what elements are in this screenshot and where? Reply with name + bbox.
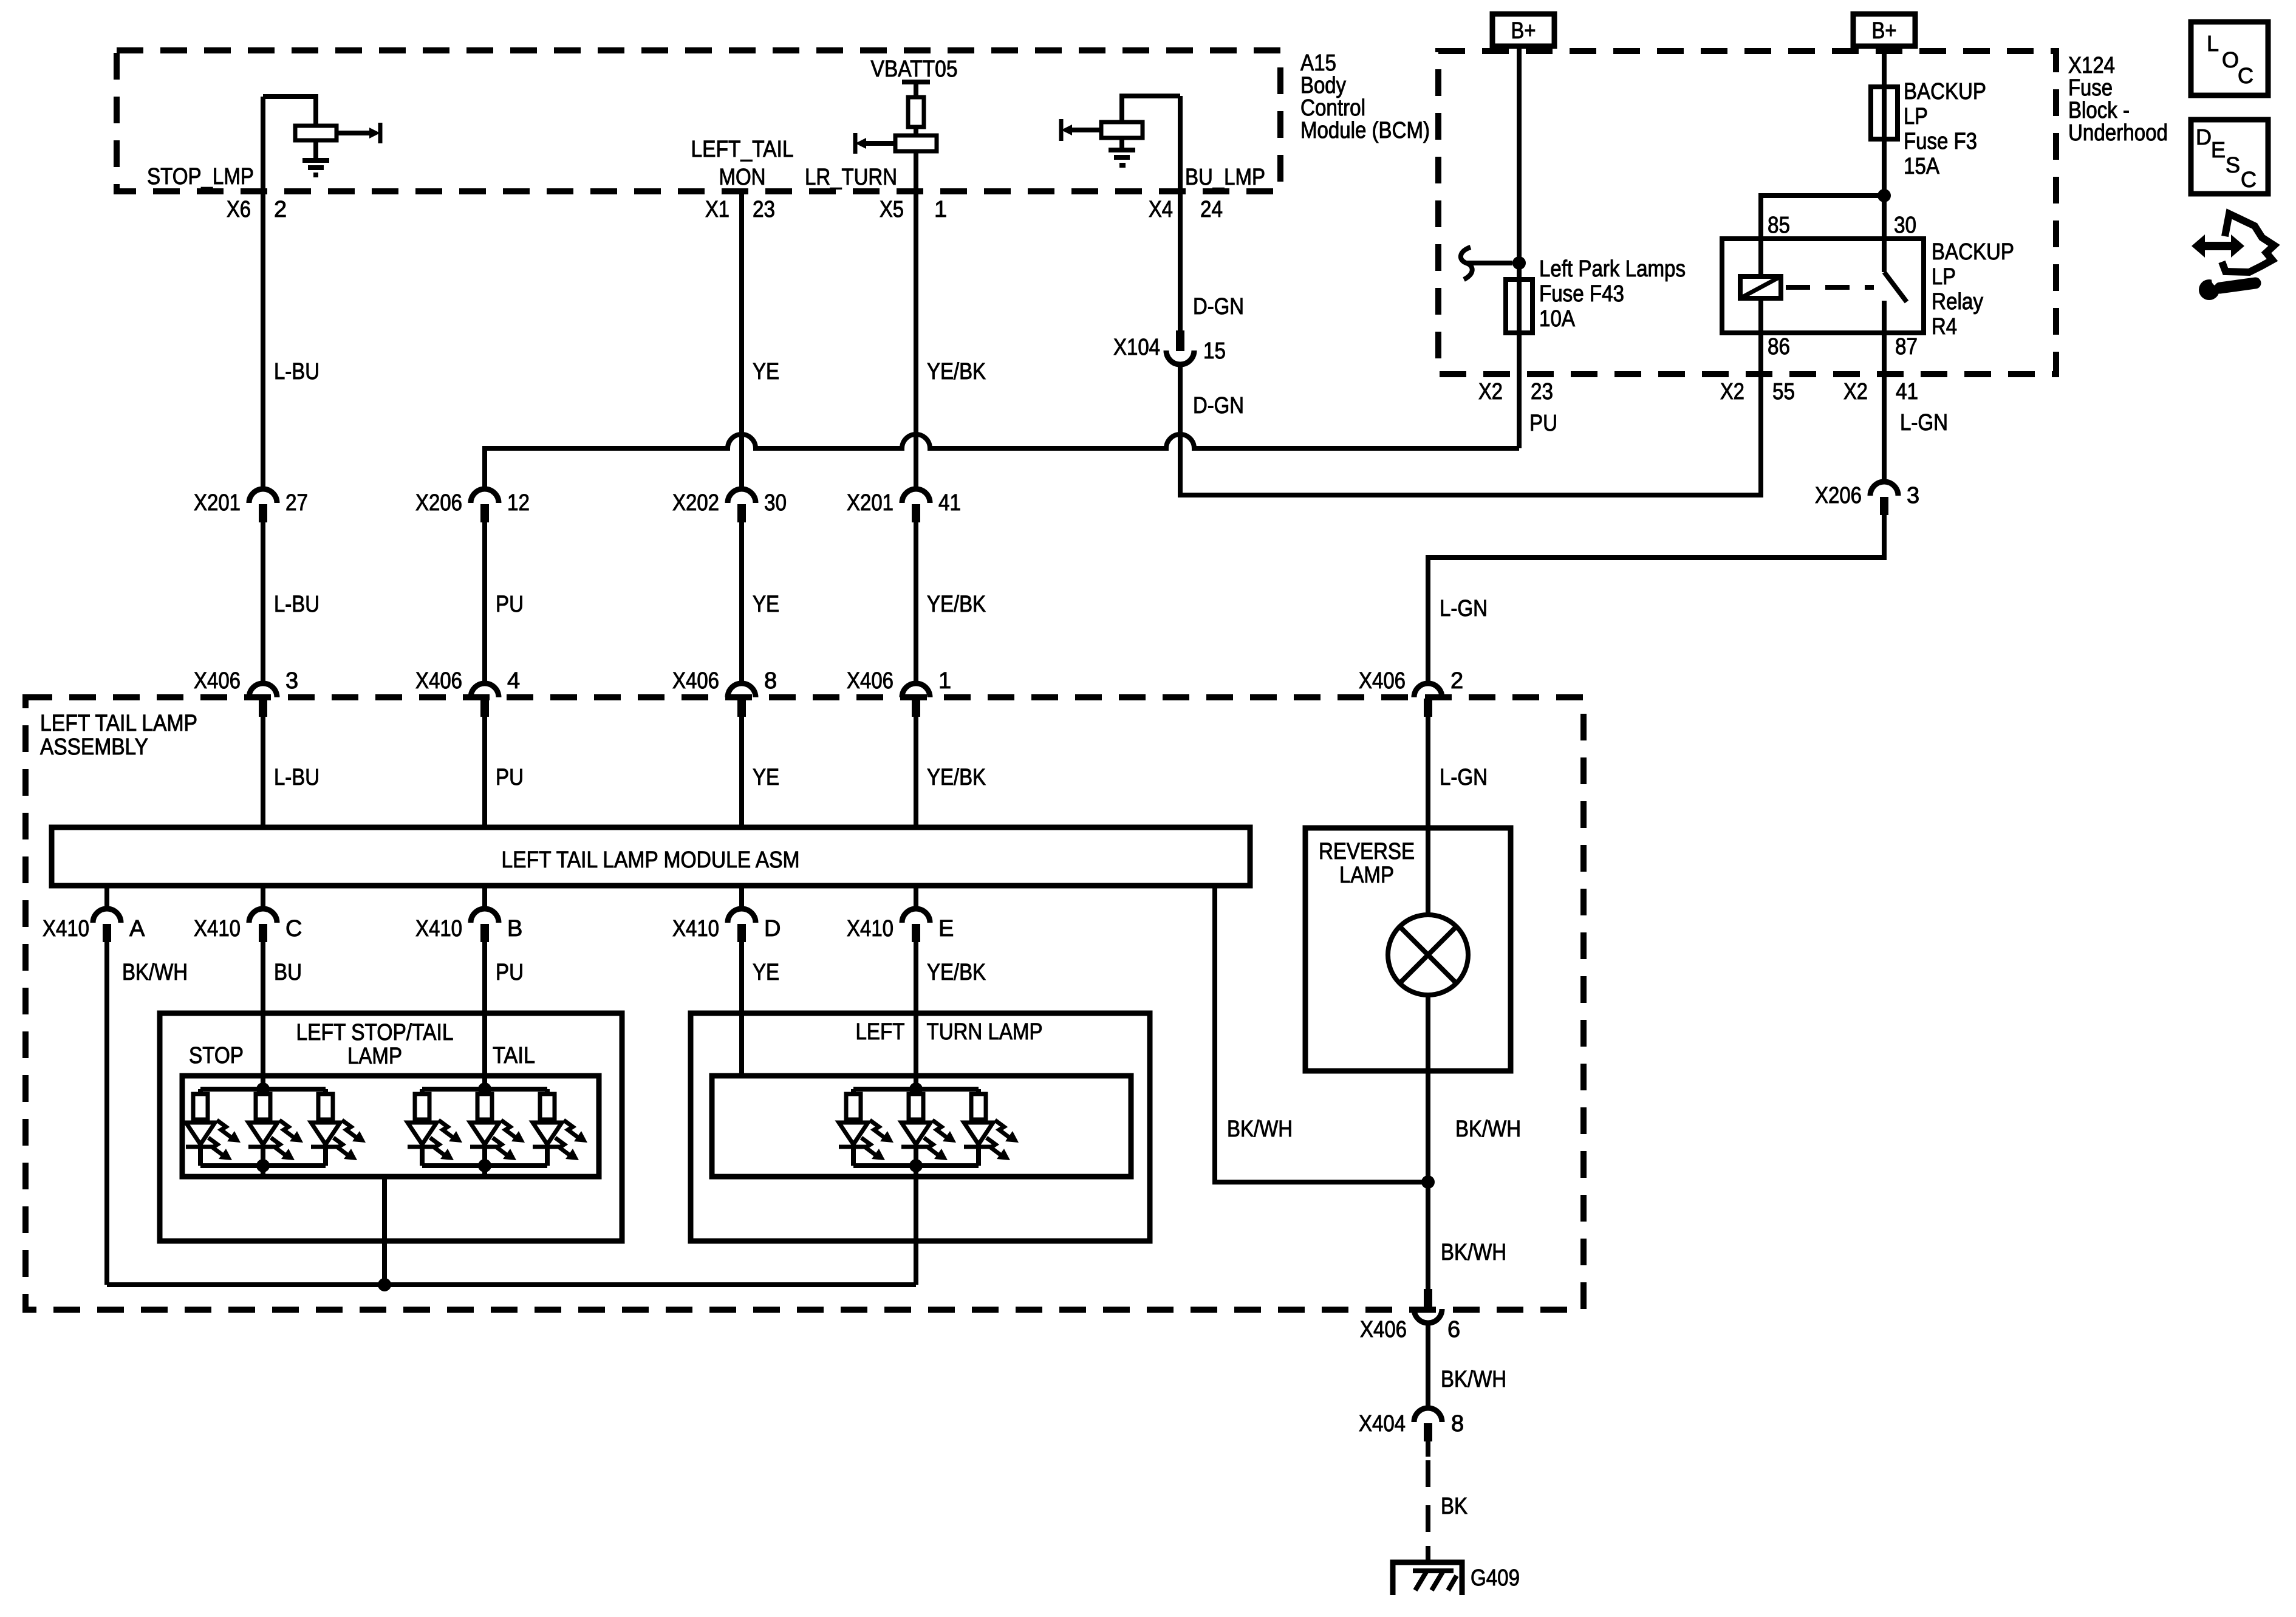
label PU 2: [496, 592, 524, 617]
svg-text:YE/BK: YE/BK: [927, 592, 986, 617]
connector X104 pin 15: [1113, 330, 1226, 364]
label D-GN 1: [1193, 294, 1244, 320]
wire fuse F3 to relay 30: [1882, 139, 1887, 239]
connector X206 pin 3: [1815, 482, 1919, 515]
svg-text:PU: PU: [496, 765, 524, 790]
svg-text:L-GN: L-GN: [1900, 410, 1948, 436]
connector X410 pin B: [415, 886, 522, 942]
label X2 pin 41: [1843, 379, 1918, 405]
label L-BU 1: [274, 359, 319, 385]
label PU 3: [496, 765, 524, 790]
wire LEFT_TAIL MON (YE column upper): [739, 191, 744, 489]
svg-text:L-BU: L-BU: [274, 765, 319, 790]
svg-text:X5: X5: [880, 197, 904, 222]
svg-text:10A: 10A: [1539, 306, 1576, 332]
svg-text:BK/WH: BK/WH: [1455, 1116, 1521, 1142]
svg-text:4: 4: [507, 668, 520, 694]
connector X410 pin E: [847, 886, 954, 942]
connector X206 pin 12: [415, 489, 530, 522]
svg-text:A: A: [129, 916, 145, 942]
svg-text:X406: X406: [1360, 1317, 1407, 1342]
label LEFT_TAIL MON: [691, 137, 794, 190]
svg-text:L-BU: L-BU: [274, 359, 319, 385]
svg-text:Module (BCM): Module (BCM): [1300, 118, 1430, 143]
svg-text:D: D: [764, 916, 781, 942]
svg-text:B: B: [507, 916, 522, 942]
label X6 pin 2: [227, 197, 287, 222]
svg-text:X406: X406: [415, 668, 462, 694]
DESC box: [2191, 120, 2268, 194]
junction node fuse F3 / relay 85: [1877, 189, 1891, 202]
relay coil-contact dashed link: [1786, 285, 1874, 290]
label BACKUP LP Relay R4: [1932, 239, 2014, 340]
wire BU from X410-C: [261, 942, 265, 1089]
label REVERSE LAMP: [1319, 839, 1415, 888]
wire YE/BK lower: [914, 717, 918, 830]
turn LED module inner box: [712, 1076, 1131, 1177]
svg-text:C: C: [2241, 167, 2257, 192]
label BACKUP LP Fuse F3 15A: [1904, 79, 1986, 179]
service icon (arrow and wrench): [2192, 214, 2274, 300]
VBATT05 supply bar: [902, 80, 930, 84]
fuse F43: [1506, 279, 1532, 333]
connector X404 pin 8: [1359, 1408, 1464, 1441]
label X4 pin 24: [1149, 197, 1223, 222]
wire PU lower: [482, 717, 487, 830]
wire PU from X410-B: [482, 942, 487, 1089]
label YE 4: [753, 960, 779, 985]
svg-text:85: 85: [1768, 213, 1790, 238]
svg-text:41: 41: [1896, 379, 1918, 405]
relay R4 box: [1722, 239, 1924, 333]
wire BK dashed to ground: [1426, 1460, 1430, 1562]
svg-text:Fuse F43: Fuse F43: [1539, 281, 1624, 307]
B+ terminal 2: [1853, 14, 1915, 46]
svg-text:X406: X406: [194, 668, 241, 694]
svg-text:BK/WH: BK/WH: [122, 960, 188, 985]
connector X406 pin 3: [194, 668, 298, 717]
svg-text:X202: X202: [672, 490, 719, 516]
wire turn lamp return: [914, 1166, 918, 1285]
label LEFT TURN LAMP: [856, 1019, 1043, 1045]
wire L-BU mid: [261, 522, 265, 683]
connector X410 pin D: [672, 886, 781, 942]
connector X406 pin 4: [415, 668, 520, 717]
svg-text:A15: A15: [1300, 50, 1336, 76]
svg-text:TAIL: TAIL: [493, 1043, 535, 1068]
label VBATT05: [871, 56, 958, 82]
svg-text:X1: X1: [705, 197, 729, 222]
svg-text:2: 2: [274, 197, 287, 222]
stop/tail bus stubs: [263, 1166, 485, 1177]
label L-GN 2: [1440, 596, 1488, 621]
svg-text:BACKUP: BACKUP: [1932, 239, 2014, 265]
svg-text:O: O: [2222, 47, 2239, 72]
svg-text:Left Park Lamps: Left Park Lamps: [1539, 256, 1686, 282]
svg-text:X406: X406: [672, 668, 719, 694]
BCM A15 dashed box: [117, 50, 1280, 191]
wire YE/BK mid: [914, 522, 918, 683]
svg-text:24: 24: [1200, 197, 1223, 222]
label YE 1: [753, 359, 779, 385]
reverse lamp bulb: [1388, 915, 1468, 995]
wire VBATT05 to fuse: [914, 84, 918, 97]
svg-text:X124: X124: [2068, 53, 2115, 78]
label YE/BK 2: [927, 592, 986, 617]
label X2 pin 55: [1720, 379, 1795, 405]
svg-text:STOP_LMP: STOP_LMP: [147, 164, 254, 190]
LEFT STOP/TAIL LAMP box: [160, 1013, 622, 1241]
svg-text:X410: X410: [672, 916, 719, 942]
wire L-BU lower: [261, 717, 265, 830]
svg-text:YE: YE: [753, 765, 779, 790]
svg-text:15: 15: [1203, 338, 1226, 364]
label BU_LMP: [1185, 165, 1265, 190]
svg-text:LEFT: LEFT: [856, 1019, 905, 1045]
svg-text:X2: X2: [1720, 379, 1744, 405]
label LR_TURN: [805, 165, 897, 190]
svg-text:PU: PU: [496, 960, 524, 985]
svg-text:YE/BK: YE/BK: [927, 960, 986, 985]
label X2 pin 23: [1478, 379, 1553, 405]
svg-text:ASSEMBLY: ASSEMBLY: [40, 734, 148, 760]
wire D-GN to relay coil: [1180, 333, 1761, 495]
svg-text:X406: X406: [847, 668, 893, 694]
svg-text:D-GN: D-GN: [1193, 393, 1244, 419]
svg-text:G409: G409: [1471, 1565, 1520, 1591]
svg-text:X104: X104: [1113, 335, 1160, 360]
svg-text:6: 6: [1447, 1317, 1460, 1342]
REVERSE LAMP box: [1305, 828, 1511, 1071]
label relay pin 86: [1768, 334, 1790, 360]
internal fuse (LR_TURN driver): [908, 97, 924, 127]
svg-text:YE/BK: YE/BK: [927, 359, 986, 385]
wire B+2 through fuse F3: [1882, 46, 1887, 139]
svg-text:86: 86: [1768, 334, 1790, 360]
label BK/WH (module return): [1227, 1116, 1293, 1142]
svg-text:LEFT STOP/TAIL: LEFT STOP/TAIL: [296, 1020, 454, 1045]
label BK: [1441, 1494, 1467, 1519]
svg-text:D-GN: D-GN: [1193, 294, 1244, 320]
svg-text:X2: X2: [1843, 379, 1868, 405]
connector X406 pin 2: [1359, 668, 1463, 717]
label TAIL: [493, 1043, 535, 1068]
LOC box: [2191, 22, 2268, 95]
svg-text:C: C: [2238, 63, 2253, 88]
svg-text:1: 1: [934, 197, 947, 222]
svg-text:41: 41: [938, 490, 961, 516]
junction node ground bus: [378, 1278, 391, 1291]
svg-text:3: 3: [1907, 483, 1919, 508]
svg-text:55: 55: [1772, 379, 1795, 405]
junction node above fuse F43: [1512, 256, 1526, 270]
svg-text:X206: X206: [1815, 483, 1862, 508]
svg-text:X201: X201: [847, 490, 893, 516]
label L-BU 3: [274, 765, 319, 790]
wire YE mid: [739, 522, 744, 683]
fuse block X124 dashed box: [1438, 51, 2056, 374]
svg-text:S: S: [2226, 152, 2240, 177]
connector X406 pin 1: [847, 668, 951, 717]
driver for LR_TURN output: [855, 133, 937, 154]
wire YE lower: [739, 717, 744, 830]
svg-text:Relay: Relay: [1932, 289, 1983, 315]
svg-text:Underhood: Underhood: [2068, 120, 2168, 146]
svg-text:L-BU: L-BU: [274, 592, 319, 617]
label L-GN 3: [1440, 765, 1488, 790]
label X5 pin 1: [880, 197, 947, 222]
label A15 Body Control Module (BCM): [1300, 50, 1430, 143]
svg-text:8: 8: [1451, 1411, 1464, 1437]
svg-text:Body: Body: [1300, 73, 1346, 98]
svg-text:LEFT TAIL LAMP MODULE ASM: LEFT TAIL LAMP MODULE ASM: [502, 847, 800, 873]
wire reverse lamp to ground junction: [1426, 995, 1430, 1289]
wire PU horizontal with hops: [485, 434, 1519, 489]
svg-text:B+: B+: [1872, 18, 1897, 44]
svg-text:X406: X406: [1359, 668, 1406, 694]
svg-text:12: 12: [507, 490, 530, 516]
fuse F3: [1871, 87, 1898, 139]
svg-text:X410: X410: [847, 916, 893, 942]
svg-text:PU: PU: [1529, 411, 1557, 436]
stop/tail LED module inner box: [182, 1076, 599, 1177]
LEFT TAIL LAMP MODULE ASM box: [52, 827, 1250, 886]
svg-text:23: 23: [1531, 379, 1553, 405]
svg-text:87: 87: [1895, 334, 1918, 360]
svg-text:X404: X404: [1359, 1411, 1406, 1437]
wire YE/BK from X410-E: [914, 942, 918, 1089]
turn LED array: [839, 1082, 1019, 1172]
label STOP: [189, 1043, 244, 1068]
svg-text:1: 1: [938, 668, 951, 694]
svg-text:LAMP: LAMP: [347, 1044, 402, 1069]
relay coil: [1740, 239, 1781, 333]
svg-text:YE: YE: [753, 592, 779, 617]
junction node BK/WH: [1421, 1175, 1435, 1189]
svg-text:L-GN: L-GN: [1440, 765, 1488, 790]
svg-text:8: 8: [764, 668, 777, 694]
svg-text:B+: B+: [1511, 18, 1536, 44]
svg-text:BACKUP: BACKUP: [1904, 79, 1986, 104]
svg-text:YE: YE: [753, 960, 779, 985]
svg-text:30: 30: [1894, 213, 1916, 238]
svg-text:X2: X2: [1478, 379, 1503, 405]
svg-text:X4: X4: [1149, 197, 1173, 222]
svg-text:TURN LAMP: TURN LAMP: [927, 1019, 1043, 1045]
svg-text:YE: YE: [753, 359, 779, 385]
label L-GN 1: [1900, 410, 1948, 436]
svg-text:STOP: STOP: [189, 1043, 244, 1068]
label YE/BK 1: [927, 359, 986, 385]
label PU (fuse output): [1529, 411, 1557, 436]
svg-text:3: 3: [285, 668, 298, 694]
left tail lamp assembly dashed box: [26, 697, 1584, 1310]
label Left Park Lamps Fuse F43 10A: [1539, 256, 1686, 332]
wire X206-3 to X406-2: [1428, 515, 1884, 683]
label LEFT STOP/TAIL LAMP: [296, 1020, 454, 1069]
svg-text:Block -: Block -: [2068, 98, 2130, 123]
label BK/WH (bottom): [1441, 1367, 1506, 1392]
svg-text:Fuse: Fuse: [2068, 75, 2113, 101]
svg-text:LR_TURN: LR_TURN: [805, 165, 897, 190]
svg-text:LP: LP: [1932, 264, 1956, 290]
wire fuse F43 to X2-23: [1517, 374, 1522, 448]
stop LED array: [186, 1082, 366, 1172]
driver for BU_LMP output: [1061, 96, 1180, 141]
svg-text:BK/WH: BK/WH: [1441, 1240, 1506, 1265]
svg-text:E: E: [938, 916, 954, 942]
B+ terminal 1: [1492, 14, 1554, 46]
svg-text:C: C: [285, 916, 302, 942]
wire LR_TURN output (YE/BK column upper): [914, 151, 918, 489]
driver for STOP_LMP output: [263, 97, 380, 143]
svg-text:L-GN: L-GN: [1440, 596, 1488, 621]
battery feed squiggle: [1461, 247, 1512, 279]
ground symbol inside BCM (stop driver): [302, 140, 329, 175]
label YE 2: [753, 592, 779, 617]
label L-BU 2: [274, 592, 319, 617]
svg-text:BK/WH: BK/WH: [1227, 1116, 1293, 1142]
LEFT TURN LAMP box: [691, 1013, 1150, 1241]
svg-text:REVERSE: REVERSE: [1319, 839, 1415, 864]
wire stop/tail lamp ground stub: [382, 1177, 387, 1285]
svg-text:Fuse F3: Fuse F3: [1904, 129, 1977, 154]
svg-text:BK: BK: [1441, 1494, 1467, 1519]
connector X201 pin 41: [847, 489, 961, 522]
connector X410 pin C: [194, 886, 302, 942]
wire to relay coil 85: [1761, 196, 1884, 239]
connector X410 pin A: [43, 886, 145, 942]
wire YE from X410-D: [739, 942, 744, 1076]
svg-text:X410: X410: [194, 916, 241, 942]
label BK/WH (reverse lamp): [1455, 1116, 1521, 1142]
svg-text:LP: LP: [1904, 104, 1928, 129]
label YE/BK 3: [927, 765, 986, 790]
label relay pin 87: [1895, 334, 1918, 360]
label G409: [1471, 1565, 1520, 1591]
svg-text:MON: MON: [719, 165, 766, 190]
wire PU mid: [482, 522, 487, 683]
label YE 3: [753, 765, 779, 790]
wire relay 87 to X2-41: [1882, 333, 1887, 482]
connector X406 pin 6: [1360, 1289, 1460, 1342]
svg-text:BU: BU: [274, 960, 302, 985]
svg-text:X206: X206: [415, 490, 462, 516]
svg-text:PU: PU: [496, 592, 524, 617]
svg-text:X410: X410: [43, 916, 89, 942]
label relay pin 30: [1894, 213, 1916, 238]
svg-text:X6: X6: [227, 197, 251, 222]
svg-text:Control: Control: [1300, 95, 1365, 121]
relay switch contact: [1884, 239, 1907, 333]
label BK/WH (to X406-6): [1441, 1240, 1506, 1265]
label relay pin 85: [1768, 213, 1790, 238]
ground G409: [1393, 1562, 1462, 1595]
ground symbol inside BCM (backup driver): [1109, 138, 1135, 165]
wire BU_LMP output (D-GN upper): [1178, 96, 1183, 330]
svg-text:15A: 15A: [1904, 154, 1940, 179]
wire BK/WH from X410-A: [104, 942, 109, 1285]
connector X202 pin 30: [672, 489, 787, 522]
svg-text:2: 2: [1450, 668, 1463, 694]
svg-text:VBATT05: VBATT05: [871, 56, 958, 82]
label PU 4: [496, 960, 524, 985]
svg-text:BK/WH: BK/WH: [1441, 1367, 1506, 1392]
svg-text:27: 27: [285, 490, 308, 516]
wire B+1 down through fuse F43: [1517, 46, 1522, 374]
wire STOP_LMP output (L-BU column upper): [261, 97, 265, 489]
label X124 Fuse Block - Underhood: [2068, 53, 2168, 146]
label BK/WH (X410-A): [122, 960, 188, 985]
label D-GN 2: [1193, 393, 1244, 419]
label BU: [274, 960, 302, 985]
wire below X404-8: [1426, 1441, 1430, 1457]
svg-text:YE/BK: YE/BK: [927, 765, 986, 790]
label LEFT TAIL LAMP ASSEMBLY: [40, 711, 197, 760]
svg-text:30: 30: [764, 490, 787, 516]
svg-text:X201: X201: [194, 490, 241, 516]
label X1 pin 23: [705, 197, 775, 222]
wire X406-6 to X404-8: [1426, 1323, 1430, 1408]
wire fuse to driver: [914, 127, 918, 135]
svg-text:X410: X410: [415, 916, 462, 942]
svg-text:LAMP: LAMP: [1339, 863, 1394, 888]
ground bus wire: [107, 1282, 916, 1287]
svg-text:E: E: [2211, 137, 2226, 162]
label YE/BK 4: [927, 960, 986, 985]
wire L-GN lower: [1426, 717, 1430, 830]
svg-text:LEFT_TAIL: LEFT_TAIL: [691, 137, 794, 162]
wire module ground return: [1215, 886, 1428, 1182]
svg-text:23: 23: [753, 197, 775, 222]
svg-text:BU_LMP: BU_LMP: [1185, 165, 1265, 190]
tail LED array: [408, 1082, 587, 1172]
svg-text:L: L: [2207, 31, 2219, 56]
connector X406 pin 8: [672, 668, 777, 717]
svg-text:R4: R4: [1932, 314, 1957, 340]
wire into reverse lamp: [1426, 830, 1430, 915]
label STOP_LMP: [147, 164, 254, 190]
svg-text:LEFT TAIL LAMP: LEFT TAIL LAMP: [40, 711, 197, 736]
svg-text:D: D: [2196, 125, 2212, 149]
connector X201 pin 27: [194, 489, 308, 522]
